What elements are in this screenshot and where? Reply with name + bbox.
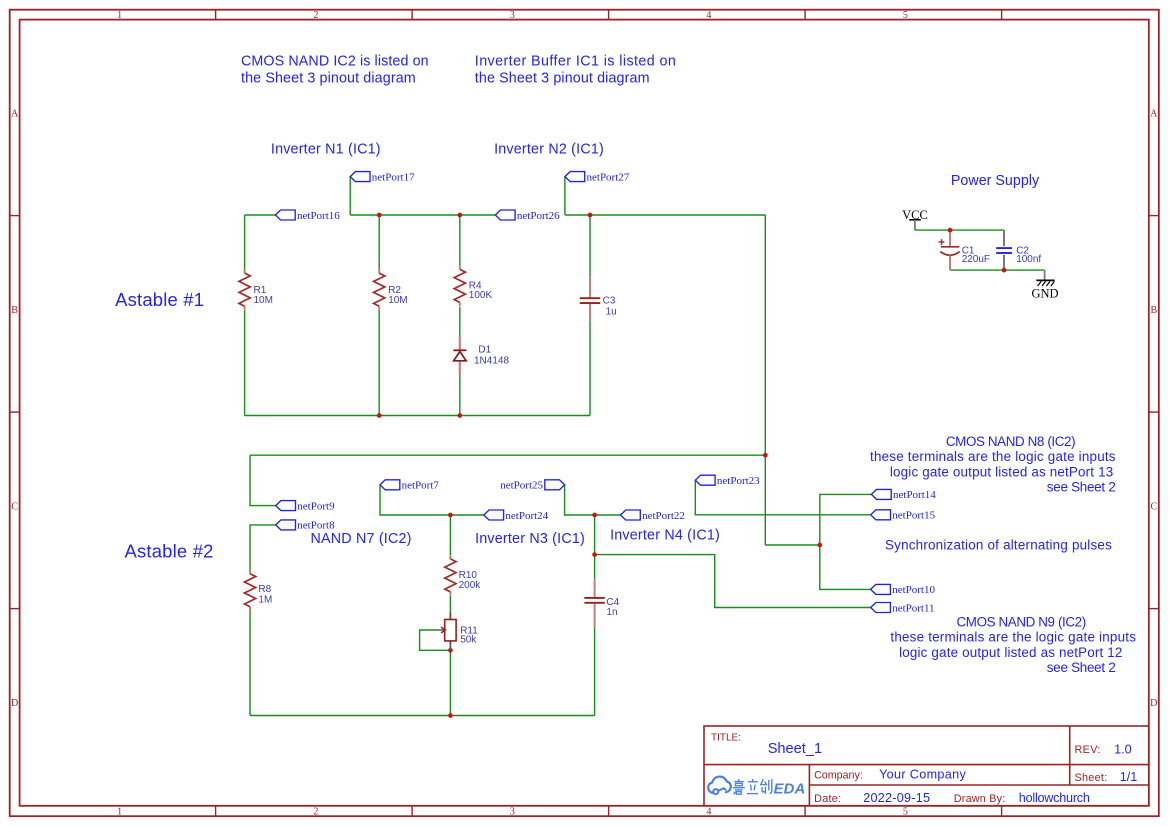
note text: Astable #1 (115, 289, 204, 310)
svg-text:1u: 1u (606, 306, 617, 317)
note text: the Sheet 3 pinout diagram (475, 70, 650, 86)
svg-text:netPort8: netPort8 (297, 520, 335, 532)
net port netPort10 (871, 584, 936, 596)
capacitor C3 (580, 296, 617, 318)
net port netPort25 (500, 480, 564, 492)
note text: Inverter N3 (IC1) (475, 531, 585, 547)
wire netPort25 to netPort22 (565, 485, 621, 515)
capacitor C4 leads (594, 579, 596, 628)
capacitor C3 leads (589, 278, 591, 322)
note text: see Sheet 2 (1047, 660, 1116, 675)
svg-text:5: 5 (903, 10, 908, 21)
svg-text:Power Supply: Power Supply (951, 173, 1040, 189)
svg-text:1N4148: 1N4148 (474, 356, 509, 367)
junction R4/top rail (457, 213, 462, 218)
wire R4 to D1 (459, 307, 461, 336)
svg-text:logic gate output listed as ne: logic gate output listed as netPort 13 (890, 464, 1113, 479)
wire to C4 node (594, 515, 596, 555)
wire top rail right (565, 214, 765, 216)
wire netPort7 to netPort24 (380, 485, 484, 515)
note text: these terminals are the logi (890, 630, 1136, 645)
wire bottom rail astable 1 (245, 415, 590, 417)
svg-text:Astable #2: Astable #2 (125, 541, 214, 562)
wire top rail astable 2 (250, 454, 765, 456)
junction C2/gnd rail (1002, 268, 1007, 273)
svg-text:netPort10: netPort10 (892, 584, 935, 596)
junction C3/top rail (588, 213, 593, 218)
diode D1 (453, 335, 509, 375)
svg-text:the Sheet 3 pinout diagram: the Sheet 3 pinout diagram (241, 70, 416, 86)
svg-text:50k: 50k (460, 634, 477, 645)
wire to netPort11 (595, 555, 871, 608)
note text: CMOS NAND N9 (IC2) (957, 615, 1086, 630)
net port netPort24 (484, 510, 549, 522)
wire C4 bottom (594, 628, 596, 716)
note text: Inverter N4 (IC1) (610, 528, 720, 544)
svg-text:netPort9: netPort9 (297, 500, 335, 512)
net port netPort17 (350, 171, 415, 183)
svg-text:10M: 10M (388, 295, 407, 306)
svg-text:these terminals are the logic: these terminals are the logic gate input… (890, 630, 1136, 645)
resistor R2 (374, 270, 408, 310)
svg-text:hollowchurch: hollowchurch (1019, 791, 1090, 805)
junction R11 wiper (448, 648, 453, 653)
JLC EDA logo (708, 777, 805, 798)
net port netPort27 (565, 171, 630, 183)
svg-text:netPort7: netPort7 (402, 480, 440, 492)
junction rails (763, 453, 768, 458)
svg-text:3: 3 (510, 806, 515, 817)
svg-text:1/1: 1/1 (1120, 770, 1138, 784)
svg-text:Inverter N2 (IC1): Inverter N2 (IC1) (494, 141, 604, 157)
svg-text:Synchronization of alternating: Synchronization of alternating pulses (885, 537, 1112, 552)
svg-text:see Sheet 2: see Sheet 2 (1047, 480, 1116, 495)
svg-text:2: 2 (313, 10, 318, 21)
svg-text:Sheet:: Sheet: (1075, 772, 1108, 784)
wire R8 bottom (249, 610, 251, 715)
svg-text:1: 1 (117, 806, 122, 817)
resistor R1 (239, 270, 273, 310)
net port netPort16 (275, 210, 340, 222)
svg-text:5: 5 (903, 806, 908, 817)
wire R1 bottom (244, 310, 246, 415)
note text: Power Supply (951, 173, 1040, 189)
svg-text:CMOS NAND N9 (IC2): CMOS NAND N9 (IC2) (957, 615, 1086, 630)
svg-text:200k: 200k (459, 580, 482, 591)
svg-text:4: 4 (706, 806, 711, 817)
wire rail to netPort16 (245, 214, 276, 216)
junction R11/bottom rail (448, 713, 453, 718)
resistor R4 (454, 266, 492, 306)
svg-text:EDA: EDA (774, 782, 806, 798)
note text: the Sheet 3 pinout diagram (241, 70, 416, 86)
capacitor C4 (584, 597, 619, 618)
wire R10 to R11 (449, 596, 451, 611)
svg-text:TITLE:: TITLE: (711, 732, 741, 743)
net port netPort9 (276, 500, 335, 512)
wire netPort14 to netPort10 (820, 494, 872, 589)
junction netPort25 line/C4 branch (592, 513, 597, 518)
svg-text:2: 2 (313, 806, 318, 817)
junction C4/netPort11 branch (592, 552, 597, 557)
wire to R10 (449, 515, 451, 555)
note text: Astable #2 (125, 541, 214, 562)
junction R2/bottom rail (377, 413, 382, 418)
svg-text:netPort22: netPort22 (642, 510, 685, 522)
capacitor C2 (996, 230, 1041, 270)
svg-text:NAND N7 (IC2): NAND N7 (IC2) (311, 531, 412, 547)
svg-text:3: 3 (510, 10, 515, 21)
resistor R8 (244, 570, 272, 610)
svg-text:4: 4 (706, 10, 711, 21)
net port netPort26 (495, 210, 560, 222)
svg-text:Drawn By:: Drawn By: (954, 793, 1006, 805)
wire C3 bottom (589, 321, 591, 415)
wire D1 bottom (459, 375, 461, 416)
net port netPort15 (871, 510, 936, 522)
svg-text:netPort11: netPort11 (892, 602, 934, 614)
svg-text:Astable #1: Astable #1 (115, 289, 204, 310)
note text: Inverter N2 (IC1) (494, 141, 604, 157)
junction R2/top rail (377, 213, 382, 218)
note text: CMOS NAND IC2 is listed on (241, 53, 429, 69)
junction sync node (817, 543, 822, 548)
note text: Synchronization of alternati (885, 537, 1112, 552)
svg-text:logic gate output listed as ne: logic gate output listed as netPort 12 (899, 645, 1122, 660)
net port netPort23 (695, 475, 760, 487)
net port netPort14 (871, 489, 936, 501)
wire gnd rail (950, 269, 1045, 271)
svg-text:D1: D1 (478, 344, 491, 355)
wire R1 top (244, 215, 246, 270)
wire R2 top (378, 215, 380, 270)
svg-text:10M: 10M (254, 295, 273, 306)
note text: logic gate output listed as (890, 464, 1113, 479)
wire netPort8 to R8 (250, 525, 276, 571)
svg-text:C: C (1150, 501, 1157, 512)
svg-text:A: A (1150, 109, 1158, 120)
svg-text:C: C (11, 501, 18, 512)
svg-text:netPort16: netPort16 (297, 210, 340, 222)
svg-text:CMOS NAND N8 (IC2): CMOS NAND N8 (IC2) (946, 434, 1075, 449)
junction D1/bottom rail (457, 413, 462, 418)
svg-text:GND: GND (1031, 286, 1058, 300)
wire netPort17 drop (349, 177, 351, 215)
wire netPort27 drop (564, 177, 566, 215)
svg-text:1: 1 (117, 10, 122, 21)
svg-text:Your Company: Your Company (879, 768, 966, 782)
wire netPort23 to netPort15 (695, 480, 870, 514)
wire C4 top (594, 555, 596, 579)
svg-text:B: B (1150, 305, 1157, 316)
note text: logic gate output listed as (899, 645, 1122, 660)
net port netPort7 (380, 480, 439, 492)
wire C3 top (589, 215, 591, 278)
net port netPort8 (276, 520, 335, 532)
wire R11 to bottom rail (449, 650, 451, 715)
net port netPort22 (621, 510, 685, 522)
svg-text:100K: 100K (469, 290, 493, 301)
power flag VCC (902, 208, 928, 230)
svg-text:netPort23: netPort23 (717, 475, 760, 487)
note text: see Sheet 2 (1047, 480, 1116, 495)
svg-text:B: B (11, 305, 18, 316)
note text: NAND N7 (IC2) (311, 531, 412, 547)
svg-text:220uF: 220uF (962, 254, 990, 265)
wire right rail (764, 215, 766, 545)
wire bottom rail astable 2 (250, 715, 595, 717)
resistor R10 (445, 555, 481, 595)
svg-text:C3: C3 (603, 296, 616, 307)
title block (704, 726, 1149, 806)
svg-text:the Sheet 3 pinout diagram: the Sheet 3 pinout diagram (475, 70, 650, 86)
svg-text:these terminals are the logic: these terminals are the logic gate input… (870, 449, 1116, 464)
svg-text:netPort15: netPort15 (892, 510, 935, 522)
svg-text:netPort26: netPort26 (517, 210, 560, 222)
svg-text:netPort25: netPort25 (500, 480, 543, 492)
ground GND (1031, 270, 1058, 300)
svg-text:netPort24: netPort24 (505, 510, 548, 522)
junction C1/VCC rail (948, 228, 953, 233)
svg-text:Inverter Buffer IC1 is listed: Inverter Buffer IC1 is listed on (475, 53, 677, 69)
svg-text:netPort27: netPort27 (587, 171, 630, 183)
svg-text:Inverter N1 (IC1): Inverter N1 (IC1) (271, 141, 381, 157)
svg-text:see Sheet 2: see Sheet 2 (1047, 660, 1116, 675)
svg-text:D: D (1150, 698, 1157, 709)
svg-text:1.0: 1.0 (1114, 742, 1132, 756)
svg-text:netPort14: netPort14 (893, 489, 936, 501)
svg-text:100nf: 100nf (1016, 254, 1041, 265)
wire R2 bottom (378, 310, 380, 415)
svg-text:Company:: Company: (814, 770, 863, 782)
svg-text:A: A (11, 109, 19, 120)
svg-text:REV:: REV: (1075, 744, 1101, 756)
wire to sync node (765, 544, 820, 546)
net port netPort11 (871, 602, 935, 614)
svg-text:Inverter N3 (IC1): Inverter N3 (IC1) (475, 531, 585, 547)
note text: these terminals are the logi (870, 449, 1116, 464)
note text: Inverter Buffer IC1 is liste (475, 53, 677, 69)
svg-text:Date:: Date: (814, 793, 841, 805)
svg-text:Inverter N4 (IC1): Inverter N4 (IC1) (610, 528, 720, 544)
potentiometer R11 (435, 611, 478, 650)
junction netPort7/netPort24 (448, 513, 453, 518)
note text: CMOS NAND N8 (IC2) (946, 434, 1075, 449)
wire R11 wiper loop (420, 630, 451, 650)
svg-text:D: D (11, 698, 18, 709)
note text: Inverter N1 (IC1) (271, 141, 381, 157)
svg-text:1n: 1n (606, 607, 617, 618)
svg-text:2022-09-15: 2022-09-15 (863, 791, 930, 805)
svg-text:netPort17: netPort17 (372, 171, 415, 183)
svg-text:1M: 1M (258, 594, 272, 605)
svg-text:Sheet_1: Sheet_1 (768, 741, 822, 757)
wire top rail left (350, 214, 495, 216)
wire VCC rail (915, 229, 1004, 231)
wire to netPort9 (250, 455, 276, 505)
svg-text:CMOS NAND IC2 is listed on: CMOS NAND IC2 is listed on (241, 53, 429, 69)
wire R4 top (459, 215, 461, 266)
capacitor C1 (polarized) (939, 230, 990, 270)
